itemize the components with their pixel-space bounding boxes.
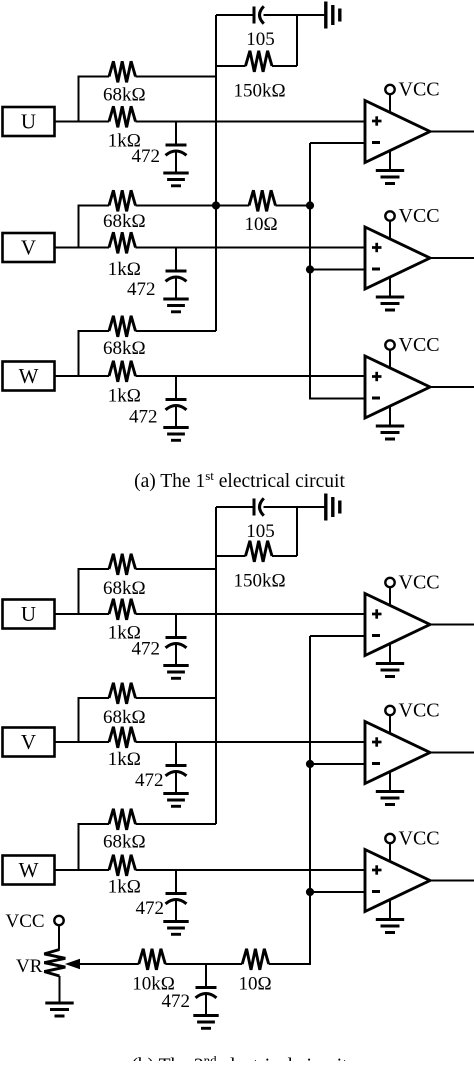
wire wiper to 10k bbox=[78, 963, 139, 965]
svg-text:472: 472 bbox=[132, 146, 161, 167]
svg-text:VR: VR bbox=[16, 956, 43, 977]
resistor 1k (W2 row) bbox=[109, 855, 136, 876]
wire 10ohm left lead bbox=[216, 205, 249, 207]
svg-text:U: U bbox=[21, 602, 36, 626]
resistor 1k (U row) bbox=[109, 106, 136, 127]
resistor 68k (W row) bbox=[109, 316, 136, 337]
wire V main to op-amp bbox=[136, 247, 366, 249]
wire 150k row left 2 bbox=[216, 555, 246, 557]
capacitor 472 (U2 row) with ground bbox=[163, 614, 188, 678]
ground stem of U1 bbox=[389, 151, 391, 171]
wire top cap row right 2 bbox=[264, 506, 326, 508]
output wire of U3 bbox=[430, 386, 474, 388]
capacitor 472 (V2 row) with ground bbox=[163, 742, 188, 806]
resistor 68k (U row) bbox=[109, 61, 136, 82]
ground of U1 bbox=[376, 171, 404, 184]
ground stem of U22 bbox=[389, 772, 391, 792]
op-amp U32 bbox=[365, 850, 430, 912]
wire 68k (W2) to feedback node bbox=[136, 823, 217, 825]
wire feedback vertical bbox=[215, 15, 217, 331]
wire branch up from W2 row bbox=[79, 824, 110, 870]
input terminal box W2 bbox=[3, 856, 55, 885]
svg-text:VCC: VCC bbox=[399, 700, 440, 722]
ground (top right) bbox=[326, 2, 340, 29]
svg-text:1kΩ: 1kΩ bbox=[108, 259, 141, 280]
wire VR to ground bbox=[59, 976, 61, 1003]
wire RC loop right side bbox=[296, 15, 298, 66]
wire U main to op-amp bbox=[136, 121, 366, 123]
svg-text:VCC: VCC bbox=[399, 205, 440, 227]
svg-text:150kΩ: 150kΩ bbox=[233, 81, 285, 102]
svg-text:U: U bbox=[21, 110, 36, 134]
svg-text:68kΩ: 68kΩ bbox=[103, 338, 146, 359]
svg-text:V: V bbox=[21, 730, 36, 754]
VCC terminal of U22 bbox=[385, 700, 439, 734]
input terminal box V2 bbox=[3, 728, 55, 757]
capacitor 472 (VR row) with ground bbox=[193, 964, 218, 1028]
svg-text:472: 472 bbox=[129, 407, 158, 428]
svg-text:1kΩ: 1kΩ bbox=[108, 386, 141, 407]
output wire of U32 bbox=[430, 880, 474, 882]
resistor 10ohm (VR row) bbox=[242, 949, 269, 970]
svg-text:VCC: VCC bbox=[399, 334, 440, 356]
ground of U3 bbox=[376, 426, 404, 439]
wire RC loop right side 2 bbox=[296, 507, 298, 556]
wire 150k row left bbox=[216, 65, 246, 67]
VCC terminal of U1 bbox=[385, 79, 439, 113]
junction minus bus / op2 junction bbox=[306, 265, 314, 273]
ground (top right) 2 bbox=[326, 494, 340, 521]
resistor 1k (W row) bbox=[109, 361, 136, 382]
wire VCC to VR bbox=[58, 926, 60, 950]
capacitor 105 bbox=[254, 6, 264, 23]
wire U2 box to 1k bbox=[55, 613, 110, 615]
resistor 10ohm bbox=[249, 190, 276, 211]
svg-text:(a) The 1st electrical circuit: (a) The 1st electrical circuit bbox=[134, 468, 345, 492]
input terminal box V bbox=[3, 233, 55, 262]
svg-text:472: 472 bbox=[132, 639, 161, 660]
wire U2 main to op-amp bbox=[136, 613, 366, 615]
ground of U12 bbox=[376, 664, 404, 677]
resistor 1k (V2 row) bbox=[109, 727, 136, 748]
svg-text:472: 472 bbox=[136, 898, 165, 919]
VCC terminal of U3 bbox=[385, 334, 439, 368]
ground of U22 bbox=[376, 792, 404, 805]
junction feedback node junction bbox=[212, 201, 220, 209]
wire branch up from U2 row bbox=[79, 569, 110, 614]
wire top cap row right bbox=[264, 14, 326, 16]
resistor 68k (V row) bbox=[109, 190, 136, 211]
wire W main to op-amp bbox=[136, 375, 366, 377]
svg-text:W: W bbox=[19, 858, 39, 882]
capacitor 105 2 bbox=[254, 498, 264, 515]
wire V box to 1k bbox=[55, 247, 110, 249]
wire feedback vertical 2 bbox=[215, 507, 217, 824]
wire minus input 1 2 bbox=[310, 635, 365, 637]
svg-text:68kΩ: 68kΩ bbox=[103, 707, 146, 728]
wire 150k row right bbox=[272, 65, 297, 67]
wire W box to 1k bbox=[55, 375, 110, 377]
svg-text:105: 105 bbox=[246, 521, 275, 542]
wire minus input 2 2 bbox=[310, 763, 365, 765]
svg-text:105: 105 bbox=[246, 29, 275, 50]
capacitor 472 (W row) with ground bbox=[163, 376, 188, 440]
wire U box to 1k bbox=[55, 121, 110, 123]
resistor 150k 2 bbox=[246, 541, 273, 562]
wire V2 box to 1k bbox=[55, 741, 110, 743]
wire branch up from U row bbox=[79, 77, 110, 122]
resistor 68k (W2 row) bbox=[109, 809, 136, 830]
ground stem of U12 bbox=[389, 644, 391, 664]
resistor 10k bbox=[139, 949, 166, 970]
op-amp U2 bbox=[365, 227, 430, 289]
svg-text:1kΩ: 1kΩ bbox=[108, 749, 141, 770]
wire W2 main to op-amp bbox=[136, 869, 366, 871]
svg-text:VCC: VCC bbox=[399, 572, 440, 594]
second electrical circuit bbox=[3, 494, 474, 1029]
svg-text:W: W bbox=[19, 364, 39, 388]
wire minus input 3 2 bbox=[310, 891, 365, 893]
input terminal box U2 bbox=[3, 600, 55, 629]
input terminal box U bbox=[3, 107, 55, 136]
op-amp U1 bbox=[365, 101, 430, 163]
resistor 68k (U2 row) bbox=[109, 554, 136, 575]
wire branch up from W row bbox=[79, 331, 110, 376]
capacitor 472 (W2 row) with ground bbox=[163, 870, 188, 934]
ground stem of U3 bbox=[389, 407, 391, 427]
svg-text:1kΩ: 1kΩ bbox=[108, 877, 141, 898]
svg-text:472: 472 bbox=[135, 770, 164, 791]
wire 68k (U2) to feedback node bbox=[136, 568, 217, 570]
wire 10ohm right lead bbox=[276, 205, 311, 207]
svg-text:V: V bbox=[21, 236, 36, 260]
capacitor 472 (U row) with ground bbox=[163, 122, 188, 186]
output wire of U2 bbox=[430, 257, 474, 259]
svg-text:68kΩ: 68kΩ bbox=[103, 211, 146, 232]
wire V2 main to op-amp bbox=[136, 741, 366, 743]
wire 68k (V) to feedback node bbox=[136, 205, 217, 207]
wire 150k row right 2 bbox=[272, 555, 297, 557]
svg-text:472: 472 bbox=[127, 279, 156, 300]
potentiometer VR bbox=[44, 950, 65, 977]
wire minus input 2 bbox=[310, 269, 365, 271]
resistor 1k (V row) bbox=[109, 232, 136, 253]
junction minus bus / op2 junction 2 bbox=[306, 760, 314, 768]
input terminal box W bbox=[3, 362, 55, 391]
wire branch up from V2 row bbox=[79, 698, 110, 742]
svg-text:150kΩ: 150kΩ bbox=[233, 571, 285, 592]
wire 68k (U) to feedback node bbox=[136, 76, 217, 78]
wire minus bus 2 bbox=[269, 636, 310, 964]
VCC terminal of U12 bbox=[385, 572, 439, 606]
svg-text:(b) The 2nd electrical circuit: (b) The 2nd electrical circuit bbox=[131, 1053, 348, 1062]
ground stem of U2 bbox=[389, 278, 391, 298]
output wire of U1 bbox=[430, 131, 474, 133]
svg-text:VCC: VCC bbox=[6, 911, 45, 932]
ground of U2 bbox=[376, 297, 404, 310]
capacitor 472 (V row) with ground bbox=[163, 248, 188, 312]
svg-text:VCC: VCC bbox=[399, 79, 440, 101]
svg-text:472: 472 bbox=[162, 991, 191, 1012]
svg-text:10Ω: 10Ω bbox=[238, 974, 271, 995]
ground of U32 bbox=[376, 920, 404, 933]
wire 68k (W) to feedback node bbox=[136, 330, 217, 332]
wire W2 box to 1k bbox=[55, 869, 110, 871]
svg-text:68kΩ: 68kΩ bbox=[103, 832, 146, 853]
wire 10k to 10ohm bbox=[165, 963, 242, 965]
resistor 1k (U2 row) bbox=[109, 599, 136, 620]
VCC terminal of U32 bbox=[385, 828, 439, 862]
wire 68k (V2) to feedback node bbox=[136, 697, 217, 699]
first electrical circuit bbox=[3, 2, 474, 441]
wire minus bus bbox=[310, 143, 365, 399]
VCC terminal of U2 bbox=[385, 205, 439, 239]
junction minus bus / op3 junction 2 bbox=[306, 888, 314, 896]
junction bus 10ohm junction bbox=[306, 201, 314, 209]
svg-text:68kΩ: 68kΩ bbox=[103, 578, 146, 599]
wire branch up from V row bbox=[79, 206, 110, 248]
wire minus input 1 bbox=[310, 142, 365, 144]
wire top cap row left 2 bbox=[216, 506, 254, 508]
resistor 150k bbox=[246, 51, 273, 72]
op-amp U12 bbox=[365, 594, 430, 656]
op-amp U3 bbox=[365, 356, 430, 418]
ground stem of U32 bbox=[389, 900, 391, 920]
svg-text:10Ω: 10Ω bbox=[244, 214, 277, 235]
resistor 68k (V2 row) bbox=[109, 683, 136, 704]
VCC terminal circle (VR section) bbox=[54, 916, 63, 925]
output wire of U12 bbox=[430, 624, 474, 626]
op-amp U22 bbox=[365, 722, 430, 784]
ground of VR bbox=[45, 1003, 73, 1016]
VR wiper arrow bbox=[67, 959, 80, 968]
svg-text:68kΩ: 68kΩ bbox=[103, 85, 146, 106]
svg-text:VCC: VCC bbox=[399, 828, 440, 850]
wire top cap row left bbox=[216, 14, 254, 16]
output wire of U22 bbox=[430, 752, 474, 754]
